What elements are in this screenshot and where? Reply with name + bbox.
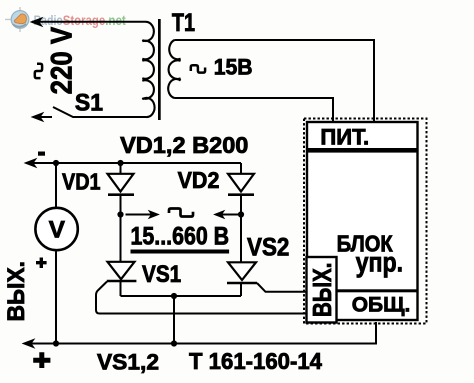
- svg-text:Storage: Storage: [63, 13, 105, 28]
- svg-text:15B: 15B: [214, 54, 253, 79]
- svg-text:ВЫХ.: ВЫХ.: [309, 263, 337, 318]
- svg-text:VS1: VS1: [142, 261, 181, 288]
- svg-text:ПИТ.: ПИТ.: [320, 124, 369, 149]
- svg-text:VD2: VD2: [178, 167, 220, 193]
- svg-text:220 V: 220 V: [45, 27, 78, 95]
- svg-text:VD1,2 B200: VD1,2 B200: [120, 132, 248, 158]
- svg-text:VD1: VD1: [62, 169, 101, 195]
- svg-text:ОБЩ.: ОБЩ.: [352, 293, 411, 317]
- svg-text:S1: S1: [75, 90, 103, 116]
- svg-text:T 161-160-14: T 161-160-14: [189, 348, 322, 374]
- svg-text:упр.: упр.: [356, 247, 404, 278]
- svg-text:T1: T1: [172, 10, 195, 37]
- svg-text:VS2: VS2: [247, 233, 289, 261]
- svg-text:V: V: [49, 217, 66, 244]
- svg-text:VS1,2: VS1,2: [97, 350, 159, 375]
- svg-text:15...660 B: 15...660 B: [131, 223, 230, 250]
- svg-text:.net: .net: [105, 13, 126, 28]
- svg-text:ВЫХ.: ВЫХ.: [3, 261, 30, 322]
